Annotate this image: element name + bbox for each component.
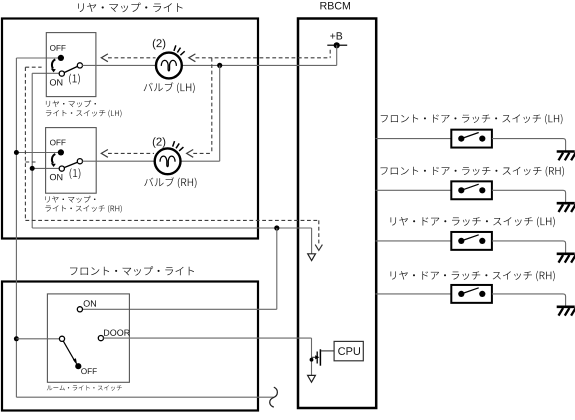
ground 2 — [557, 202, 575, 205]
dashed LH bulb to switch — [108, 57, 156, 59]
label ライト・スイッチ (LH) — [46, 110, 122, 118]
wire LH ON link — [32, 72, 59, 74]
wire bottom horizontal to continuation — [16, 396, 273, 398]
label ON (RH) — [50, 174, 62, 180]
bulb バルブ (RH) — [155, 148, 181, 174]
contact pivot circle (RH) — [77, 159, 82, 164]
label フロント・ドア・ラッチ・スイッチ (LH) — [381, 114, 563, 124]
dashed RBCM internal vertical — [318, 220, 320, 244]
wire LH OFF feed — [16, 57, 58, 59]
wire ON bus to RBCM — [32, 227, 311, 229]
wire ON-bus RBCM internal vertical — [311, 228, 313, 254]
wire room common feed — [16, 338, 59, 340]
RBCM module box — [298, 19, 376, 409]
junction dot OFF bus / RH OFF — [14, 150, 19, 155]
label (1) LH — [69, 74, 80, 85]
wire RBCM to latch switch 3 — [376, 240, 452, 242]
contact ON circle (LH) — [59, 71, 64, 76]
title リヤ・マップ・ライト — [78, 3, 183, 13]
wire +B down-left to bulbs — [336, 45, 338, 65]
wire branch down to front ON — [276, 228, 278, 309]
lever common→OFF with arrow — [63, 341, 75, 362]
dashed return to RBCM — [25, 219, 318, 221]
label ON (front) — [84, 300, 96, 306]
contact ON circle (front) — [77, 307, 82, 312]
switch box ルーム・ライト・スイッチ — [47, 294, 129, 382]
junction dot ON bus / RH ON — [30, 166, 35, 171]
wire latch switch 3 to ground — [492, 241, 566, 254]
wire RH row feed→bulb — [181, 160, 220, 162]
wire RH OFF feed — [16, 152, 58, 154]
label OFF (front) — [81, 368, 97, 374]
junction dot transistor source — [310, 358, 314, 362]
door latch switch box 1 — [451, 130, 492, 148]
CPU box — [334, 341, 363, 360]
label RBCM — [320, 2, 350, 10]
dashed LH switch exit — [25, 66, 41, 68]
wire RH row bulb→switch — [82, 160, 154, 162]
front map light unit box フロント・マップ・ライト — [2, 282, 258, 411]
label (1) RH — [70, 168, 81, 179]
latch switch contacts 1 — [458, 136, 464, 142]
junction dot OFF bus / room light — [14, 336, 19, 341]
wire ON bus vertical — [31, 73, 33, 228]
dashed RH bulb to switch — [108, 152, 154, 154]
label +B — [330, 32, 342, 39]
title フロント・マップ・ライト — [70, 266, 194, 275]
latch switch lever 2 — [461, 184, 478, 190]
contact common circle (front) — [59, 336, 64, 341]
lever (LH) — [64, 66, 78, 72]
wire RH ON link — [32, 167, 59, 169]
label フロント・ドア・ラッチ・スイッチ (RH) — [381, 166, 565, 176]
arrow down below transistor — [308, 375, 316, 382]
ground 4 — [557, 305, 575, 308]
curved arrow OFF→ON (LH) — [52, 59, 55, 68]
latch switch lever 1 — [461, 133, 478, 139]
label ルーム・ライト・スイッチ — [47, 385, 122, 390]
latch switch contacts 4 — [458, 291, 464, 297]
flow arrow down (dashed return) — [315, 245, 322, 251]
rear map light unit box リヤ・マップ・ライト — [2, 19, 258, 239]
latch switch contacts 2 — [458, 187, 464, 193]
wire DOOR line down to transistor — [311, 338, 313, 375]
label バルブ (LH) — [144, 82, 195, 93]
label (2) LH — [153, 39, 166, 50]
flow arrow into RH bulb right — [187, 150, 194, 158]
+B terminal dot — [334, 42, 340, 48]
bulb バルブ (LH) — [156, 53, 182, 79]
junction dot LH row / RH feed — [217, 63, 222, 68]
label OFF (RH) — [50, 140, 66, 146]
door latch switch box 2 — [451, 181, 492, 199]
contact OFF dot (front) — [75, 363, 81, 369]
transistor Q1 channel bar — [319, 349, 321, 365]
wire main left vertical (OFF bus) — [15, 58, 17, 397]
curved arrow OFF→ON (RH) — [52, 154, 55, 163]
latch switch contacts 3 — [458, 238, 464, 244]
dashed RH switch exit stub — [25, 161, 35, 163]
dashed feed to LH bulb — [196, 57, 331, 59]
wire RBCM to latch switch 1 — [376, 138, 452, 140]
label リヤ・マップ・ (LH) — [46, 100, 96, 107]
wire LH row switch→bulb — [82, 64, 156, 66]
ground 3 — [557, 253, 575, 256]
door latch switch box 3 — [451, 232, 492, 250]
flow arrow into RH switch — [101, 150, 108, 158]
label ON (LH) — [50, 79, 62, 85]
contact DOOR circle — [98, 336, 103, 341]
latch switch lever 4 — [461, 288, 478, 294]
contact OFF dot (LH) — [58, 55, 64, 61]
label ライト・スイッチ (RH) — [45, 205, 121, 213]
wire latch switch 4 to ground — [492, 294, 566, 307]
switch box リヤ・マップ・ライト・スイッチ (RH) — [46, 128, 97, 194]
label リヤ・マップ・ (RH) — [45, 196, 95, 203]
continuation squiggle — [270, 387, 278, 407]
wire RBCM to latch switch 4 — [376, 293, 452, 295]
ground 1 — [557, 150, 575, 153]
label OFF (LH) — [50, 45, 66, 51]
wire latch switch 2 to ground — [492, 190, 566, 203]
contact OFF dot (RH) — [58, 149, 64, 155]
door latch switch box 4 — [451, 285, 492, 303]
latch switch lever 3 — [461, 235, 478, 241]
junction dot ON bus / front ON branch — [274, 225, 279, 230]
lever (RH) — [64, 162, 78, 168]
wire RBCM to latch switch 2 — [376, 189, 452, 191]
wire latch switch 1 to ground — [492, 139, 566, 152]
dashed branch vertical to RH row — [211, 58, 213, 154]
contact ON circle (RH) — [59, 166, 64, 171]
transistor Q1 source arrow — [312, 356, 316, 358]
transistor Q1 gate bar — [316, 352, 318, 364]
label DOOR — [104, 330, 130, 336]
wire drain to CPU — [321, 350, 334, 352]
arrow down (ON return) — [308, 254, 316, 261]
label リヤ・ドア・ラッチ・スイッチ (LH) — [391, 217, 555, 227]
dashed feed to RH bulb — [193, 152, 212, 154]
label リヤ・ドア・ラッチ・スイッチ (RH) — [391, 271, 555, 281]
contact pivot circle (LH) — [77, 63, 82, 68]
wire DOOR to RBCM — [103, 337, 311, 339]
dashed from +B vertical — [329, 50, 331, 58]
dashed left vertical return — [24, 67, 26, 220]
label バルブ (RH) — [144, 177, 196, 188]
label (2) RH — [153, 137, 166, 148]
+B terminal bar — [327, 44, 347, 46]
flow arrow into LH switch — [101, 54, 108, 62]
switch box リヤ・マップ・ライト・スイッチ (LH) — [46, 33, 96, 97]
wire front ON horizontal — [83, 308, 277, 310]
flow arrow into LH bulb right — [189, 54, 196, 62]
wire RH feed vertical — [219, 65, 221, 161]
label CPU — [338, 347, 360, 355]
wire LH row bulb→RBCM +B — [182, 64, 337, 66]
